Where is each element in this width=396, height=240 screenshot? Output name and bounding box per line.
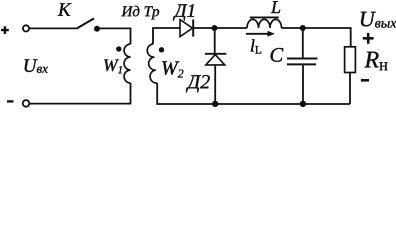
wire switch to W1 xyxy=(97,28,131,44)
capacitor C lead top xyxy=(302,28,304,58)
dot W2 polarity xyxy=(159,47,164,52)
node dot D2 bottom xyxy=(212,101,218,107)
capacitor C lead bottom xyxy=(302,65,304,104)
label W1 xyxy=(104,60,122,74)
capacitor C top plate xyxy=(287,58,318,60)
diode D2 cathode bar xyxy=(205,53,226,55)
diode D2 triangle xyxy=(206,55,225,65)
wire L to C node xyxy=(282,27,303,29)
label D1 xyxy=(173,4,194,20)
wire W1 bottom to rail xyxy=(30,83,131,104)
label L xyxy=(271,1,280,13)
label K xyxy=(58,3,72,15)
label RH xyxy=(364,52,387,70)
plus sign input xyxy=(1,26,9,34)
diode D1 cathode bar xyxy=(192,20,194,37)
current arrow iL xyxy=(246,33,269,35)
node dot D2 top xyxy=(212,25,218,31)
diode D1 triangle xyxy=(180,20,193,37)
label Uvyh xyxy=(361,12,396,28)
inductor L humps xyxy=(247,19,282,28)
resistor RH body xyxy=(345,47,356,73)
label C xyxy=(271,48,284,62)
node dot C top xyxy=(300,25,306,31)
node dot C bottom xyxy=(300,101,306,107)
minus sign input xyxy=(7,100,14,102)
switch K contact dot xyxy=(94,26,100,32)
input - terminal xyxy=(23,100,30,107)
label iL xyxy=(251,39,261,53)
capacitor C bottom plate xyxy=(287,63,316,65)
dot W1 polarity xyxy=(116,46,121,51)
switch K blade xyxy=(77,18,95,28)
input + terminal xyxy=(23,25,29,31)
wire D1 to L xyxy=(193,27,247,29)
wire W2 top to diode D1 xyxy=(153,28,180,44)
resistor RH lead bottom xyxy=(349,73,351,105)
plus sign output xyxy=(363,33,374,44)
wire top-left to switch xyxy=(29,27,76,29)
minus sign output xyxy=(361,79,369,82)
label D2 xyxy=(186,75,210,92)
inductor L core bar xyxy=(250,16,279,18)
diode D2 lead bottom xyxy=(214,65,216,104)
bottom rail secondary xyxy=(157,83,350,104)
label Id Tr xyxy=(121,6,159,20)
diode D2 lead top xyxy=(214,28,216,54)
winding W1 xyxy=(124,44,130,83)
wire C node to R corner xyxy=(303,28,351,47)
winding W2 xyxy=(147,44,157,83)
label W2 xyxy=(162,61,183,77)
label Uvx xyxy=(25,59,48,73)
